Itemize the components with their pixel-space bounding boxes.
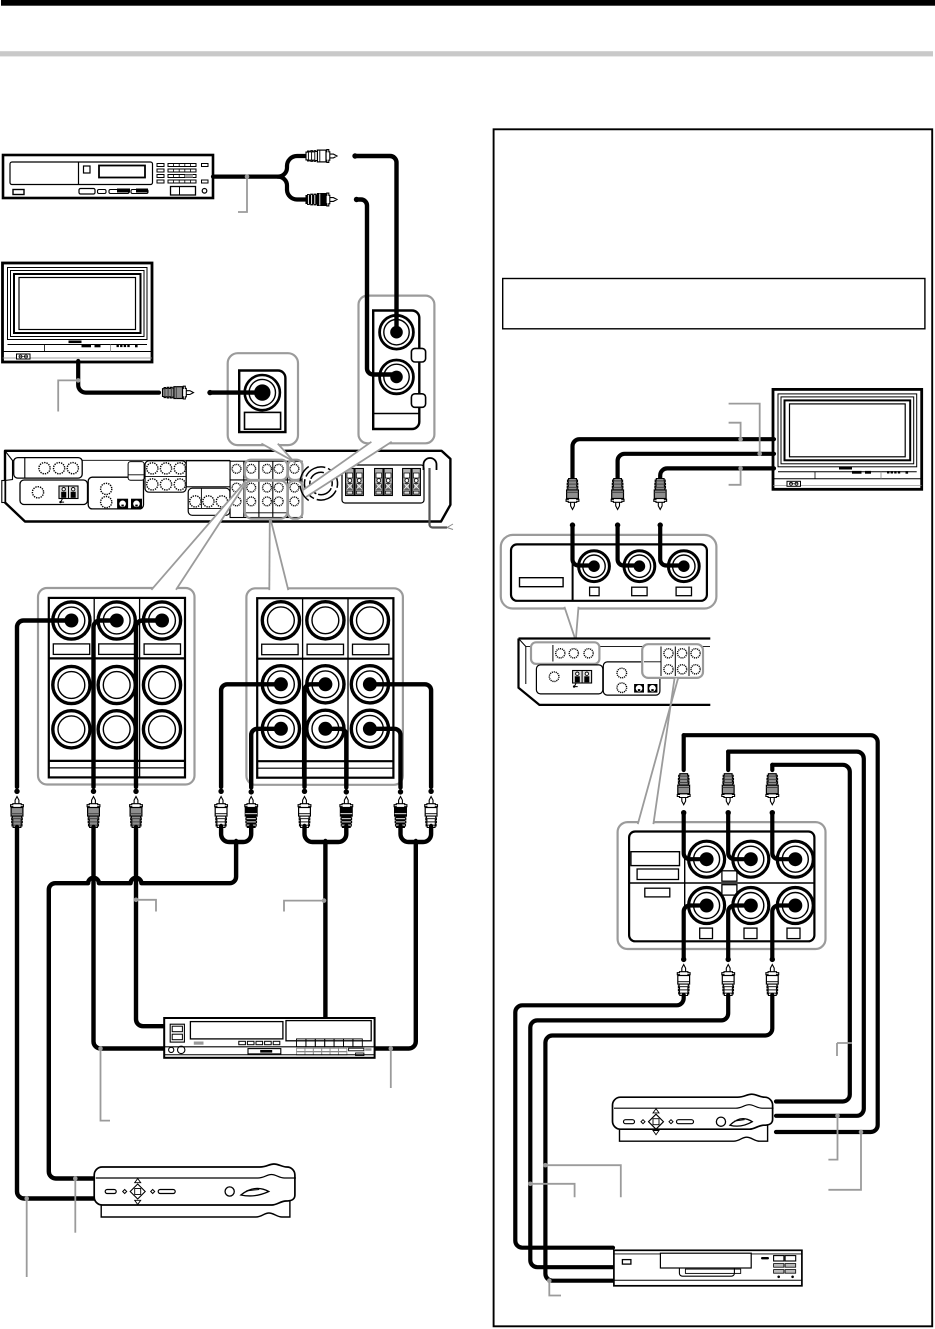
VCR deck <box>164 1018 374 1058</box>
receiver: phono jack + group B box <box>20 480 88 505</box>
fill: video-in top jack plugged <box>390 326 403 339</box>
wire: pair3 U-join <box>401 826 432 842</box>
fill: panel1 jack1 plugged <box>64 614 78 628</box>
receiver: audio input jack group A <box>14 458 83 479</box>
receiver2: group C box <box>603 662 660 695</box>
cable: plugB stub <box>726 752 730 770</box>
jack: 5.1ch rear row 3 <box>777 888 813 924</box>
node: panel2 c2 junction <box>249 789 254 794</box>
receiver: speaker terminals SURROUND <box>403 469 421 496</box>
plug: CD white RCA plug <box>306 150 337 163</box>
callout panel: monitor video out (gray box) <box>228 353 298 445</box>
callout video-in small switch 1 <box>411 348 425 362</box>
cable: panel1 jack3 down <box>136 621 165 788</box>
plug: 5.1ch bottom plug C <box>766 965 779 996</box>
leader: CD cable gray pointer <box>238 174 249 212</box>
wire: pair2 U-join <box>305 826 347 842</box>
plug: 5.1ch bottom plug B <box>722 965 735 996</box>
cable: into Pb jack <box>618 525 637 565</box>
cable: CD Y-branch down <box>278 177 287 190</box>
cable: panel2 bot-center down <box>327 729 346 788</box>
plug: panel1 cable1 gray plug <box>11 797 24 828</box>
cable: panel2 mid-center down <box>305 684 328 787</box>
node: component jack 2 <box>615 522 620 527</box>
leader: receiver2 to big callout <box>638 679 678 825</box>
fill: Pb jack plugged <box>634 560 646 572</box>
plug: panel2 black plug c <box>394 797 407 828</box>
plug: TV2 plug 1 <box>566 479 579 510</box>
node: monitor out jack <box>207 390 212 395</box>
CD player <box>3 155 213 198</box>
switch: under Pb <box>632 587 647 596</box>
DVD player <box>614 1250 802 1286</box>
leader: panel2 tail to audio-in group <box>269 519 288 590</box>
jack: video 2 in (bottom) <box>380 360 414 394</box>
TV monitor (left column) <box>3 263 153 362</box>
leader: riser pointer bracket <box>837 1043 852 1056</box>
node: component jack 1 <box>570 522 575 527</box>
cable: right riser 1 (outer) <box>684 735 878 1132</box>
plug: panel2 black plug a <box>245 797 258 828</box>
receiver: blank option plate <box>186 461 230 487</box>
node: 5.1ch bottom dot C <box>770 957 775 962</box>
jack: video 2 in (top) <box>380 315 414 349</box>
node: 5.1ch bottom dot B <box>726 957 731 962</box>
cable: panel2 mid-right out-right <box>368 684 431 787</box>
leader: TV2 pointer bracket 3 <box>729 466 743 485</box>
cable: right riser 2 (mid) <box>728 752 864 1116</box>
callout monitor-out tail <box>261 444 295 464</box>
receiver2 rear panel body (partial) <box>519 639 711 705</box>
fill: panel2 mid-right plugged <box>363 677 377 691</box>
cable: bottomB to DVD mid <box>530 995 728 1267</box>
cable: panel2 bot-right down <box>368 729 401 788</box>
plug: panel1 cable3 gray plug <box>130 797 143 828</box>
node: panel2 c5 junction <box>398 789 403 794</box>
cable: bottomC to DVD low <box>545 995 772 1281</box>
fill: panel2 bot-left plugged <box>274 722 288 736</box>
leader: TV2 pointer long <box>729 404 762 457</box>
jack: 5.1ch rear row 2 <box>733 888 769 924</box>
jack: 5.1ch rear row 1 <box>689 888 725 924</box>
fill: 5.1ch rear row 3 plugged <box>788 899 802 913</box>
cable: panel2 bot-left down <box>251 729 283 788</box>
callout component tail <box>564 607 578 638</box>
cable: panel1 jack2 down <box>94 621 121 788</box>
cable: plugC stub <box>770 765 774 770</box>
leader: VCR left-cable pointer <box>98 1046 110 1120</box>
leader: panel1 tail to audio-in group <box>151 481 246 590</box>
cable: TV2 video lead 3 <box>660 468 774 478</box>
leader: tuner2 cable2 pointer <box>828 1114 839 1160</box>
receiver: gray highlight audio-out group <box>288 481 303 519</box>
wire: cable3 down to VCR upper-left <box>136 827 165 1026</box>
switch: under Y <box>590 587 600 596</box>
plug: panel2 white plug b <box>298 797 311 828</box>
receiver rear panel body (left column) <box>2 451 451 522</box>
plug: 5.1ch top plug C <box>766 774 779 805</box>
receiver: gray highlight video-in group <box>245 460 288 480</box>
cable: panel2 mid-left out-left <box>221 684 283 787</box>
node: panel2 c6 junction <box>428 789 433 794</box>
right column outer border box <box>494 129 933 1326</box>
plug: 5.1ch top plug A <box>677 774 690 805</box>
receiver: AC power cord <box>430 468 454 530</box>
cable: TV2 video lead 1 <box>573 439 775 478</box>
callout video-in inner black panel <box>373 311 419 430</box>
cable: into Pr jack <box>660 525 682 565</box>
cable: dotC into center jack <box>772 813 793 860</box>
receiver: group C box with 2 jacks <box>88 477 143 509</box>
cable: plugA stub <box>682 735 686 770</box>
plug: TV2 plug 2 <box>611 479 624 510</box>
plug: 5.1ch bottom plug A <box>677 965 690 996</box>
node: panel1 cable1 junction <box>14 789 19 794</box>
satellite tuner (left column) <box>94 1164 296 1217</box>
gray section divider bar <box>0 51 933 56</box>
fill: 5.1ch rear row 1 plugged <box>700 899 714 913</box>
node: panel2 c1 junction <box>218 789 223 794</box>
callout video-in small switch 2 <box>411 394 425 408</box>
receiver: gray highlight audio-in group <box>245 481 288 519</box>
cable: dotA into front-L jack <box>684 813 704 860</box>
fill: panel2 mid-left plugged <box>274 677 288 691</box>
cable: L into video-in top jack <box>355 156 397 330</box>
receiver2: s-video jack 1 <box>634 684 644 693</box>
node: component jack 3 <box>658 522 663 527</box>
plug: panel1 cable2 gray plug <box>87 797 100 828</box>
satellite tuner (right column) <box>613 1094 774 1141</box>
callout monitor-out inner black panel <box>239 371 285 433</box>
fill: Pr jack plugged <box>678 560 690 572</box>
plug: TV2 plug 3 <box>654 479 667 510</box>
leader: DVD bottom pointer <box>547 1278 561 1295</box>
cable: sub jack out <box>772 906 793 959</box>
receiver: cooling fan <box>300 467 337 501</box>
receiver: group D 2x3 jack grid <box>145 461 186 492</box>
leader: TV2 pointer bracket 1 <box>729 423 743 442</box>
callout panel: video-in jacks (gray box) <box>359 296 435 444</box>
fill: panel1 jack2 plugged <box>110 614 124 628</box>
callout video-in tail <box>303 442 392 497</box>
node: panel2 c4 junction <box>344 789 349 794</box>
wire: pair1 U-join <box>221 826 251 842</box>
jacks: panel2 3x3 <box>262 602 388 748</box>
wire: cable2 down to VCR lower-left <box>94 827 166 1049</box>
node: video2 jack R <box>354 197 359 202</box>
callout panel: component video (gray box) <box>501 535 717 609</box>
jacks: panel1 3x3 <box>53 602 181 748</box>
receiver: speaker terminal area box <box>342 465 424 503</box>
node: video2 jack L <box>352 153 357 158</box>
wire: pair1 down-left-down (hops over cable2/cable3) <box>49 841 236 1179</box>
jack: 5.1ch front row 2 <box>733 841 769 877</box>
cable: bottomA to DVD top <box>515 995 683 1248</box>
leader: pair tape-in pointer <box>134 898 156 912</box>
cable: R into video-in bottom jack <box>357 200 396 375</box>
cable: CD player output lead <box>213 166 287 177</box>
fill: panel2 bot-center plugged <box>318 722 332 736</box>
switch: under Pr <box>676 587 691 596</box>
receiver: AC power cord grommet <box>424 458 437 470</box>
jack: 5.1ch front row 1 <box>689 841 725 877</box>
callout 5.1ch inner panel <box>629 832 814 942</box>
jack: monitor video out <box>245 375 280 410</box>
receiver: s-video jack 1 <box>117 499 128 509</box>
receiver2: gray highlight 5.1ch input group <box>642 644 703 678</box>
cable: rear-L jack out <box>684 906 704 959</box>
leader: DVD cableB pointer <box>528 1182 575 1198</box>
cable: panel1 jack1 out-left-down <box>17 621 75 788</box>
node: 5.1ch top dot B <box>726 810 731 815</box>
plug: panel2 black plug b <box>340 797 353 828</box>
jack monitor video out plug fill <box>254 384 270 400</box>
cable: right riser 3 (inner) <box>772 765 850 1102</box>
fill: panel2 mid-center plugged <box>318 677 332 691</box>
node: panel1 cable2 junction <box>91 789 96 794</box>
leader: DVD cableC pointer <box>543 1163 621 1197</box>
jack: 5.1ch front row 3 <box>777 841 813 877</box>
plug: panel2 white plug a <box>215 797 228 828</box>
node: 5.1ch top dot A <box>681 810 686 815</box>
fill: video-in bottom jack plugged <box>390 371 403 384</box>
receiver: speaker terminals CENTER <box>375 469 393 496</box>
node: panel1 cable3 junction <box>133 789 138 794</box>
plug: panel2 white plug c <box>425 797 438 828</box>
fill: Y jack plugged <box>588 560 600 572</box>
receiver: small switch box <box>128 462 144 481</box>
receiver: antenna terminal block <box>59 486 78 503</box>
wire: cable1 down to tuner <box>17 827 95 1199</box>
node: 5.1ch bottom dot A <box>681 957 686 962</box>
leader: tuner2 cable3 pointer <box>828 1130 863 1190</box>
cable: TV monitor lead <box>78 361 159 393</box>
cable: CD branch to black plug <box>287 190 305 200</box>
leader: tuner cable2 pointer <box>73 1176 78 1233</box>
cable: CD branch to white plug <box>287 156 305 166</box>
plug: CD black RCA plug <box>306 193 337 206</box>
callout panel: pre-out group 1 (gray box) <box>38 588 195 785</box>
fill: 5.1ch front row 1 plugged <box>700 852 714 866</box>
receiver2: s-video jack 2 <box>648 684 658 693</box>
receiver: gray highlight monitor-video group <box>288 460 303 480</box>
callout panel: pre-out group 2 (gray box) <box>246 588 403 785</box>
receiver: s-video jack 2 <box>131 499 142 509</box>
receiver: group E 3-jack row <box>188 488 230 515</box>
callout component inner panel <box>511 544 707 600</box>
receiver2: antenna terminal block <box>573 671 592 688</box>
receiver2: gray highlight audio group <box>531 642 599 664</box>
jack: component Pb <box>624 551 655 582</box>
TV monitor (right column) <box>773 389 922 489</box>
leader: pair2 pointer <box>284 898 326 911</box>
leader: tuner cable1 pointer <box>24 1196 29 1277</box>
cable: TV2 video lead 2 <box>618 454 774 478</box>
cable: dotB into front-R jack <box>728 813 748 860</box>
right column note box (empty) <box>503 279 925 329</box>
jack: component Y <box>579 551 610 582</box>
receiver: 5x3 AV jack grid <box>230 461 302 517</box>
jack: component Pr <box>668 551 699 582</box>
cable: into Y jack <box>573 525 593 565</box>
plug: 5.1ch top plug B <box>722 774 735 805</box>
page top black title bar <box>1 0 935 6</box>
fill: 5.1ch front row 2 plugged <box>744 852 758 866</box>
fill: 5.1ch rear row 2 plugged <box>744 899 758 913</box>
leader: VCR right-cable pointer <box>389 1046 394 1088</box>
leader: TV cable gray pointer <box>58 378 80 411</box>
cable: into monitor-out jack <box>210 390 261 394</box>
fill: panel2 bot-right plugged <box>363 722 377 736</box>
callout panel: 5.1ch input (gray box) <box>618 822 826 949</box>
node: 5.1ch top dot C <box>770 810 775 815</box>
receiver2: phono group box <box>536 665 602 694</box>
plug: TV monitor RCA plug <box>163 386 194 399</box>
fill: panel1 jack3 plugged <box>155 614 169 628</box>
wire: pair3 down to VCR right <box>374 841 416 1049</box>
receiver: speaker terminals FRONT <box>346 469 364 496</box>
node: panel2 c3 junction <box>302 789 307 794</box>
cable: rear-R jack out <box>728 906 748 959</box>
fill: 5.1ch front row 3 plugged <box>788 852 802 866</box>
wire: pair2 down to VCR top <box>323 841 327 1017</box>
